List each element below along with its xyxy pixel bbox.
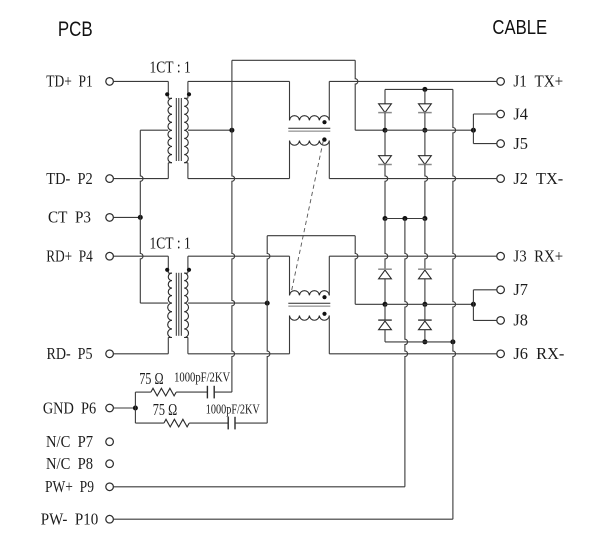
pin terminal J4 — [497, 110, 505, 118]
wire D3 to mid — [424, 113, 426, 131]
wire mid rail 1 — [385, 129, 473, 131]
wire T2-CT route top — [267, 235, 355, 237]
wire T2-CT route up — [267, 236, 270, 303]
wire bus rail — [385, 218, 425, 220]
wire diode column2 lower — [425, 219, 428, 271]
svg-text:PW+ P9: PW+ P9 — [45, 477, 94, 496]
diode D3 — [418, 104, 432, 113]
svg-text:J2 TX-: J2 TX- — [513, 169, 563, 188]
wire D5 to mid2 — [384, 279, 386, 305]
svg-text:TD- P2: TD- P2 — [46, 169, 93, 188]
wire T2-CT route down — [355, 236, 358, 305]
coupling dashed line between chokes — [291, 141, 323, 293]
pin label RD+ P4 — [46, 247, 93, 266]
junction bus col2 — [422, 216, 427, 221]
phase dot L1 winding B — [322, 137, 326, 141]
wire D7 to rail bottom — [384, 330, 386, 342]
pin label J4 — [513, 104, 528, 123]
wire D6 to mid2 — [424, 279, 426, 305]
wire T2 center tap right — [188, 302, 267, 304]
resistor R1 75 ohm — [151, 388, 176, 396]
wire vertical V2 down to termination — [267, 303, 270, 423]
phase dot L1 winding A — [322, 120, 326, 124]
junction mid rail 2 col1 — [383, 302, 388, 307]
svg-text:CT P3: CT P3 — [48, 208, 91, 227]
wire GND to R1 — [135, 391, 151, 393]
phase dot T2 primary — [165, 268, 169, 272]
pin label TD- P2 — [46, 169, 93, 188]
pin label N/C P7 — [46, 432, 93, 451]
diode D1 — [378, 104, 392, 113]
svg-text:RD- P5: RD- P5 — [47, 344, 93, 363]
svg-text:75 Ω: 75 Ω — [139, 369, 163, 388]
pin terminal PW+ P9 — [106, 483, 114, 491]
wire diode rail bottom — [385, 341, 453, 343]
junction T1 secondary center tap — [229, 128, 234, 133]
wire to J4 — [473, 113, 496, 115]
wire RD+ P4 to T2 — [113, 255, 168, 257]
wire T1-CT route up — [231, 60, 233, 130]
capacitor C2 1000pF/2KV — [228, 417, 235, 430]
pin terminal J2 TX- — [497, 175, 505, 183]
junction GND node — [133, 406, 138, 411]
phase dot T1 primary — [165, 92, 169, 96]
pin label RD- P5 — [47, 344, 93, 363]
pin label J3 RX+ — [513, 247, 563, 266]
label 1CT:1 for transformer T1 — [150, 57, 191, 76]
diode D7 — [378, 320, 392, 330]
junction mid rail 2 col2 — [422, 302, 427, 307]
svg-text:TD+ P1: TD+ P1 — [46, 72, 93, 91]
wire C1 to V1 — [214, 391, 232, 393]
wire GND to R2 — [135, 422, 164, 424]
label 1000pF/2KV (C2) — [206, 402, 260, 417]
wire R2 to C2 — [189, 422, 228, 424]
wire D8 to rail bottom — [424, 330, 426, 342]
wire PW+ riser — [405, 219, 408, 487]
svg-text:PW- P10: PW- P10 — [41, 510, 99, 529]
header label PCB — [58, 19, 93, 42]
svg-text:J5: J5 — [513, 134, 528, 153]
svg-text:J6 RX-: J6 RX- — [513, 344, 564, 363]
wire to J8 — [473, 319, 496, 321]
wire T1 secondary bottom to choke L1 — [188, 178, 290, 180]
junction bus col1 — [383, 216, 388, 221]
junction mid rail 1 col2 — [422, 128, 427, 133]
svg-text:J3 RX+: J3 RX+ — [513, 247, 563, 266]
junction rail bottom / PW- riser — [450, 339, 455, 344]
pin terminal J1 TX+ — [497, 78, 505, 86]
header label CABLE — [492, 15, 547, 38]
diode D5 — [378, 269, 392, 279]
wire to J7 — [473, 289, 496, 291]
pin terminal J7 — [497, 286, 505, 294]
pin terminal GND P6 — [106, 404, 114, 412]
pin terminal RD- P5 — [106, 350, 114, 358]
pin label J1 TX+ — [513, 72, 563, 91]
wire center-tap vertical (CT bus) — [140, 130, 143, 303]
wire J7/J8 bracket — [472, 290, 474, 321]
pin label J6 RX- — [513, 344, 564, 363]
junction T2 secondary center tap — [265, 301, 270, 306]
wire CT P3 stub — [113, 216, 140, 218]
wire mid to D4 — [424, 130, 426, 156]
wire C2 to V2 — [235, 422, 267, 424]
resistor R2 75 ohm — [164, 419, 189, 427]
svg-text:RD+ P4: RD+ P4 — [46, 247, 93, 266]
diode D6 — [418, 269, 432, 279]
pin terminal CT P3 — [106, 214, 114, 222]
wire T2-CT to diode mid rail 2 — [355, 303, 385, 305]
label 1CT:1 for transformer T2 — [150, 234, 191, 253]
transformer T2 (1CT:1) — [168, 256, 189, 354]
wire T1-CT route down to diodes — [355, 60, 358, 130]
transformer T1 (1CT:1) — [168, 81, 188, 178]
svg-text:PCB: PCB — [58, 19, 93, 42]
svg-text:J1 TX+: J1 TX+ — [513, 72, 563, 91]
pin label J2 TX- — [513, 169, 563, 188]
diode D8 — [418, 320, 432, 330]
junction rail top / column 2 — [422, 87, 427, 92]
wire vertical V1 down to termination — [232, 130, 235, 392]
svg-text:J8: J8 — [513, 311, 528, 330]
wire mid to D2 — [384, 130, 386, 156]
phase dot L2 winding B — [322, 312, 326, 316]
pin label PW- P10 — [41, 510, 99, 529]
pin terminal J5 — [497, 140, 505, 148]
svg-text:1CT : 1: 1CT : 1 — [150, 57, 191, 76]
pin terminal N/C P8 — [106, 460, 114, 468]
pin label J7 — [513, 280, 528, 299]
label 75 ohm (R2) — [153, 400, 177, 419]
diode D4 — [418, 156, 432, 165]
pin terminal RD+ P4 — [106, 252, 114, 260]
pin terminal PW- P10 — [106, 515, 114, 523]
wire choke L2 out to J3 — [329, 255, 497, 257]
pin label PW+ P9 — [45, 477, 94, 496]
junction bus middle — [402, 216, 407, 221]
junction J7/J8 tap — [471, 302, 476, 307]
svg-text:1000pF/2KV: 1000pF/2KV — [174, 371, 230, 386]
common-mode choke L1 — [288, 81, 330, 178]
wire T2 secondary bottom to choke L2 — [188, 353, 290, 355]
wire mid2 to D8 — [424, 304, 426, 321]
wire to J5 — [473, 143, 496, 145]
pin label TD+ P1 — [46, 72, 93, 91]
svg-text:1000pF/2KV: 1000pF/2KV — [206, 402, 260, 417]
pin terminal TD+ P1 — [106, 78, 114, 86]
wire diode column1 lower — [385, 219, 388, 271]
svg-text:J4: J4 — [513, 104, 528, 123]
pin terminal N/C P7 — [106, 438, 114, 446]
pin label J5 — [513, 134, 528, 153]
phase dot T2 secondary — [187, 268, 191, 272]
svg-text:J7: J7 — [513, 280, 528, 299]
wire mid2 to D7 — [384, 304, 386, 321]
pin label J8 — [513, 311, 528, 330]
wire T1-CT route top — [232, 59, 355, 61]
wire PW- riser — [453, 89, 456, 519]
wire diode column1 upper — [384, 89, 386, 103]
wire diode column2 upper — [424, 89, 426, 103]
diode D2 — [378, 156, 392, 165]
wire TD- P2 to T1 — [113, 178, 168, 180]
phase dot L2 winding A — [322, 295, 326, 299]
wire T1 secondary top to choke L1 — [188, 80, 290, 82]
common-mode choke L2 — [288, 256, 330, 354]
svg-text:75 Ω: 75 Ω — [153, 400, 177, 419]
svg-text:GND P6: GND P6 — [43, 398, 96, 417]
svg-text:1CT : 1: 1CT : 1 — [150, 234, 191, 253]
wire choke L1 out to J1 — [329, 80, 497, 82]
wire PW- P10 line — [113, 518, 453, 520]
label 75 ohm (R1) — [139, 369, 163, 388]
wire GND P6 stub — [113, 407, 135, 409]
svg-text:N/C P8: N/C P8 — [46, 454, 93, 473]
svg-text:N/C P7: N/C P7 — [46, 432, 93, 451]
junction J4/J5 tap — [471, 128, 476, 133]
pin label GND P6 — [43, 398, 96, 417]
label 1000pF/2KV (C1) — [174, 371, 230, 386]
junction CT P3 — [138, 215, 143, 220]
wire J4/J5 bracket — [472, 114, 474, 144]
wire TD+ P1 to T1 — [113, 80, 168, 82]
wire R1 to C1 — [176, 391, 207, 393]
wire RD- P5 to T2 — [113, 353, 168, 355]
wire D1 to mid — [384, 113, 386, 131]
wire T1 center tap right — [188, 129, 232, 131]
wire D4 to bus — [425, 165, 428, 219]
wire T1-CT to diode mid rail — [355, 129, 385, 131]
wire choke L2 out to J6 — [329, 353, 497, 355]
wire D2 to bus — [385, 165, 388, 219]
junction rail bottom col2 — [422, 339, 427, 344]
wire T2 center tap left — [140, 302, 168, 304]
wire diode rail top — [385, 88, 453, 90]
wire mid rail 2 — [385, 303, 473, 305]
phase dot T1 secondary — [187, 92, 191, 96]
wire T1 center tap left — [140, 129, 168, 131]
junction mid rail 1 col1 — [383, 128, 388, 133]
pin label N/C P8 — [46, 454, 93, 473]
capacitor C1 1000pF/2KV — [207, 386, 214, 399]
pin label CT P3 — [48, 208, 91, 227]
wire GND vertical — [134, 392, 136, 423]
wire T2 secondary top to choke L2 — [188, 255, 290, 257]
pin terminal J3 RX+ — [497, 252, 505, 260]
wire PW+ P9 line — [113, 486, 405, 488]
pin terminal J8 — [497, 317, 505, 325]
pin terminal TD- P2 — [106, 175, 114, 183]
pin terminal J6 RX- — [497, 350, 505, 358]
wire choke L1 out to J2 — [329, 178, 497, 180]
svg-text:CABLE: CABLE — [492, 15, 547, 38]
